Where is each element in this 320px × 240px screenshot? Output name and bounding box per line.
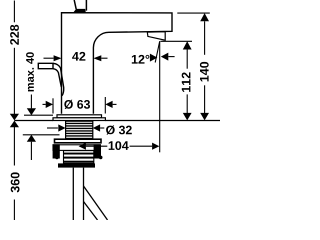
dimension 140 up arrow bbox=[200, 13, 209, 21]
dimension 104 right line bbox=[130, 145, 153, 147]
base plate lower tier bbox=[53, 118, 105, 121]
threaded shank bbox=[66, 121, 93, 138]
dimension 112 text bbox=[182, 72, 191, 92]
deck bottom line bbox=[23, 134, 60, 136]
dimension max40 line bbox=[30, 95, 32, 109]
dimension 32 text bbox=[106, 125, 132, 134]
base plate upper tier bbox=[57, 115, 102, 118]
deck line right bbox=[105, 120, 220, 122]
dimension 12 deg right arrow bbox=[150, 54, 158, 62]
dimension 32 left tail bbox=[47, 127, 58, 129]
dimension 104 right arrow bbox=[152, 143, 159, 150]
dimension max40 up arrow bbox=[27, 135, 36, 142]
dimension 12 deg left arrow bbox=[161, 53, 169, 61]
dimension 42 right arrow bbox=[93, 55, 101, 61]
dimension 140 line bottom bbox=[204, 85, 206, 114]
dimension 12 deg text bbox=[132, 55, 150, 64]
lever stem inner line bbox=[53, 69, 61, 87]
hose left wall bbox=[72, 168, 74, 220]
slip ring bbox=[53, 145, 100, 151]
dimension 104 text bbox=[109, 141, 129, 150]
dimension 112 line top bbox=[186, 50, 188, 69]
dimension 42 left arrow bbox=[54, 55, 62, 61]
dimension 228 text bbox=[10, 25, 19, 45]
bent hose inner wall bbox=[84, 202, 98, 221]
dimension 63 right arrow bbox=[105, 101, 112, 108]
dimension 112 down arrow bbox=[183, 113, 192, 121]
aerator vertical reference line bbox=[159, 41, 161, 152]
dimension 63 left arrow bbox=[46, 101, 53, 108]
dimension 140 down arrow bbox=[200, 113, 209, 121]
dimension 63 right extension line bbox=[104, 97, 106, 114]
dimension 360 line bottom bbox=[13, 200, 15, 221]
dimension 360 line top bbox=[13, 127, 15, 166]
dimension max40 down arrow bbox=[27, 108, 36, 115]
dimension 63 left tail bbox=[43, 103, 46, 105]
dimension 360 up arrow bbox=[10, 121, 19, 128]
dimension 360 text bbox=[11, 172, 20, 192]
dimension 140 line top bbox=[204, 21, 206, 55]
faucet body outline bbox=[62, 13, 173, 114]
dimension 112 up arrow bbox=[183, 41, 192, 49]
dimension 63 left extension line bbox=[52, 98, 54, 113]
dimension 228 line bottom bbox=[13, 48, 15, 115]
bent hose outer wall bbox=[84, 186, 108, 220]
dimension 140 text bbox=[200, 62, 209, 82]
dimension 228 line top bbox=[13, 1, 15, 23]
dimension 42 left tail bbox=[44, 57, 54, 59]
dimension 112 line bottom bbox=[186, 94, 188, 114]
dimension 12 deg left tail bbox=[168, 56, 174, 58]
dimension 42 text bbox=[72, 52, 85, 61]
dimension 140 extension line bbox=[177, 12, 210, 14]
mounting nut bbox=[58, 151, 95, 168]
washer bbox=[55, 139, 102, 143]
dimension 32 right arrow bbox=[93, 124, 100, 131]
lever bar bbox=[38, 63, 53, 68]
dimension 112 extension line bbox=[161, 40, 193, 42]
nut left ear bbox=[53, 144, 60, 159]
dimension 32 left arrow bbox=[58, 124, 65, 131]
handle pin base wedge bbox=[73, 9, 86, 13]
dimension max40 text bbox=[26, 52, 34, 91]
nut right ear bbox=[94, 144, 103, 159]
plate top extension line bbox=[24, 114, 53, 116]
dimension 104 left line bbox=[86, 145, 107, 147]
dimension 228 down arrow bbox=[10, 114, 19, 121]
handle pin bbox=[74, 0, 86, 11]
dimension max40 tail bbox=[30, 142, 32, 160]
hose right wall bbox=[83, 168, 85, 220]
dimension 63 right tail bbox=[113, 103, 117, 105]
dimension 32 right tail bbox=[100, 127, 104, 129]
lever stem outer line bbox=[53, 63, 64, 96]
deck line left bbox=[14, 120, 53, 122]
dimension 104 left arrow bbox=[79, 143, 86, 150]
dimension 42 right tail bbox=[101, 57, 107, 59]
dimension 63 text bbox=[64, 100, 90, 109]
aerator bbox=[147, 32, 165, 41]
aerator 12 deg line bbox=[155, 41, 160, 62]
